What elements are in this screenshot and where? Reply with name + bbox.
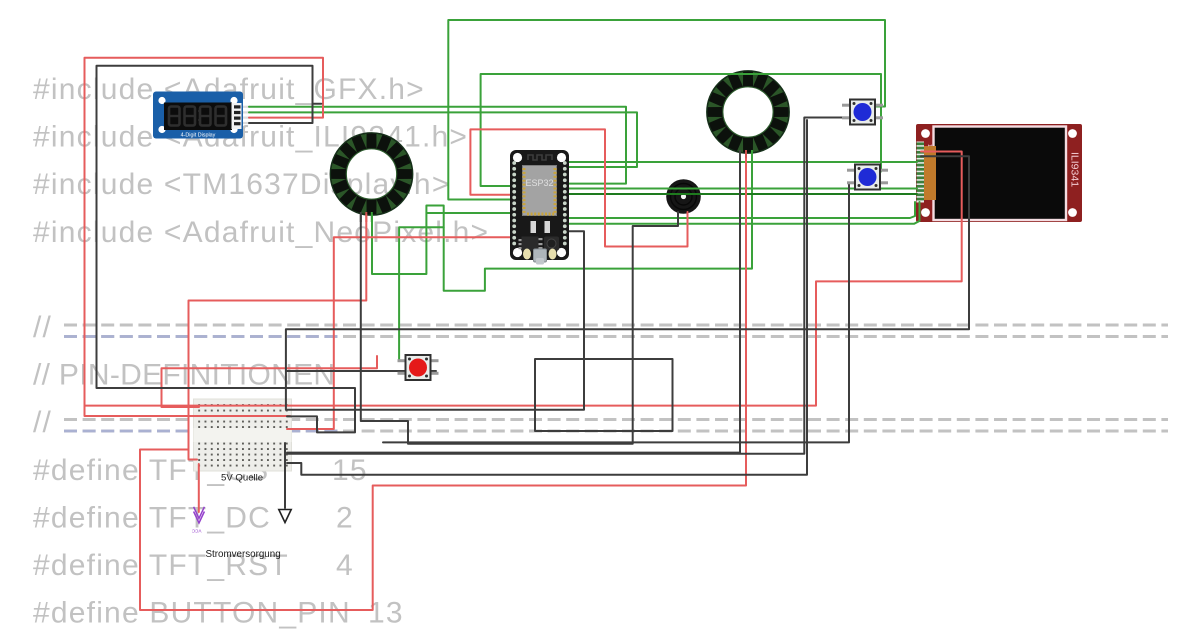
wire: ESP32 red to breadboard xyxy=(287,237,512,429)
wire: ground feed xyxy=(284,443,286,508)
TM1637 pin stubs xyxy=(241,106,250,108)
TM1637 4-digit display xyxy=(153,92,243,139)
svg-text:ESP32: ESP32 xyxy=(525,178,553,188)
svg-text:VCC: VCC xyxy=(191,529,201,534)
svg-text:ILI9341: ILI9341 xyxy=(1069,152,1081,187)
wire: ring1 VCC red to breadboard xyxy=(189,215,367,460)
wire: TM1637 VCC red long loop to breadboard and TFT xyxy=(85,58,962,406)
wire: red jog into breadboard row2 xyxy=(85,404,291,416)
ring1 pins xyxy=(360,212,362,222)
wire: TM1637 DIO green to ESP32 xyxy=(249,112,637,167)
wire: TM1637 CLK green to ESP32 xyxy=(249,107,626,184)
wire: green ring branch to ESP32 xyxy=(426,212,512,214)
wire: black rectangle route xyxy=(535,359,673,431)
wire: branch to red pushbutton xyxy=(286,370,436,372)
svg-text:15: 15 xyxy=(332,454,368,487)
wire: TM1637 GND gray S-route to breadboard xyxy=(97,66,356,433)
wire: green ESP32 to TFT MOSI xyxy=(568,188,917,190)
svg-text:1: 1 xyxy=(926,144,932,147)
VCC symbol xyxy=(194,507,205,523)
wire: green ESP32 to TFT SCK xyxy=(568,161,917,163)
wire: gray stub xyxy=(313,103,322,105)
wire: button2 to breadboard xyxy=(383,183,852,443)
svg-text://: // xyxy=(33,406,52,439)
svg-text:2: 2 xyxy=(336,501,354,534)
wire: red VCC feed xyxy=(198,464,200,512)
svg-text:4: 4 xyxy=(336,549,354,582)
svg-text:4-Digit Display: 4-Digit Display xyxy=(181,133,216,139)
wire: buzzer red to ESP32 xyxy=(470,129,687,246)
ring2 pins xyxy=(739,150,741,162)
svg-text:Stromversorgung: Stromversorgung xyxy=(206,549,281,560)
breadboard 5V Quelle xyxy=(194,399,292,471)
wire: green top loop ESP32 to button1 xyxy=(448,20,885,200)
wire: red wire to red pushbutton area xyxy=(162,356,378,407)
pushbutton button3 red xyxy=(398,355,439,380)
wire: ring1 GND to buzzer xyxy=(361,212,678,444)
wire: button1 second wire xyxy=(287,120,807,475)
wire: ring2 GND to breadboard xyxy=(287,159,740,453)
wire: green loop ESP32 to button2 xyxy=(481,74,881,186)
pushbutton button2 blue xyxy=(847,165,888,190)
svg-text:// PIN-DEFINITIONEN: // PIN-DEFINITIONEN xyxy=(33,359,335,392)
svg-text:#include <Adafruit_NeoPixel.h>: #include <Adafruit_NeoPixel.h> xyxy=(33,216,489,249)
ESP32 dev board xyxy=(510,150,569,265)
wire: red loop breadboard to ring2 VCC xyxy=(140,159,746,610)
pushbutton button1 blue xyxy=(842,100,883,125)
ILI9341 TFT display xyxy=(916,124,1082,222)
buzzer xyxy=(666,179,701,214)
wire: ring2 DIN to ring1 DOUT chain xyxy=(372,158,752,291)
wire: TFT black to red button row xyxy=(286,156,969,410)
NeoPixel ring1 xyxy=(330,133,412,215)
svg-text:#define BUTTON_PIN: #define BUTTON_PIN xyxy=(33,597,351,630)
wire: dark green ESP32 to TFT DC xyxy=(568,193,917,195)
wire: button1 to breadboard rail xyxy=(287,118,849,454)
NeoPixel ring2 xyxy=(707,71,789,153)
wire: ESP32 GND to breadboard xyxy=(286,231,584,409)
svg-text:5V Quelle: 5V Quelle xyxy=(221,473,263,484)
svg-text://: // xyxy=(33,311,52,344)
svg-text:#define TFT_DC: #define TFT_DC xyxy=(33,501,271,534)
wire: green to red pushbutton xyxy=(399,227,444,361)
ground symbol xyxy=(279,510,291,523)
wire: green ESP32 to TFT CS xyxy=(568,202,915,218)
wire: green ESP32 to TFT RST xyxy=(568,202,920,224)
